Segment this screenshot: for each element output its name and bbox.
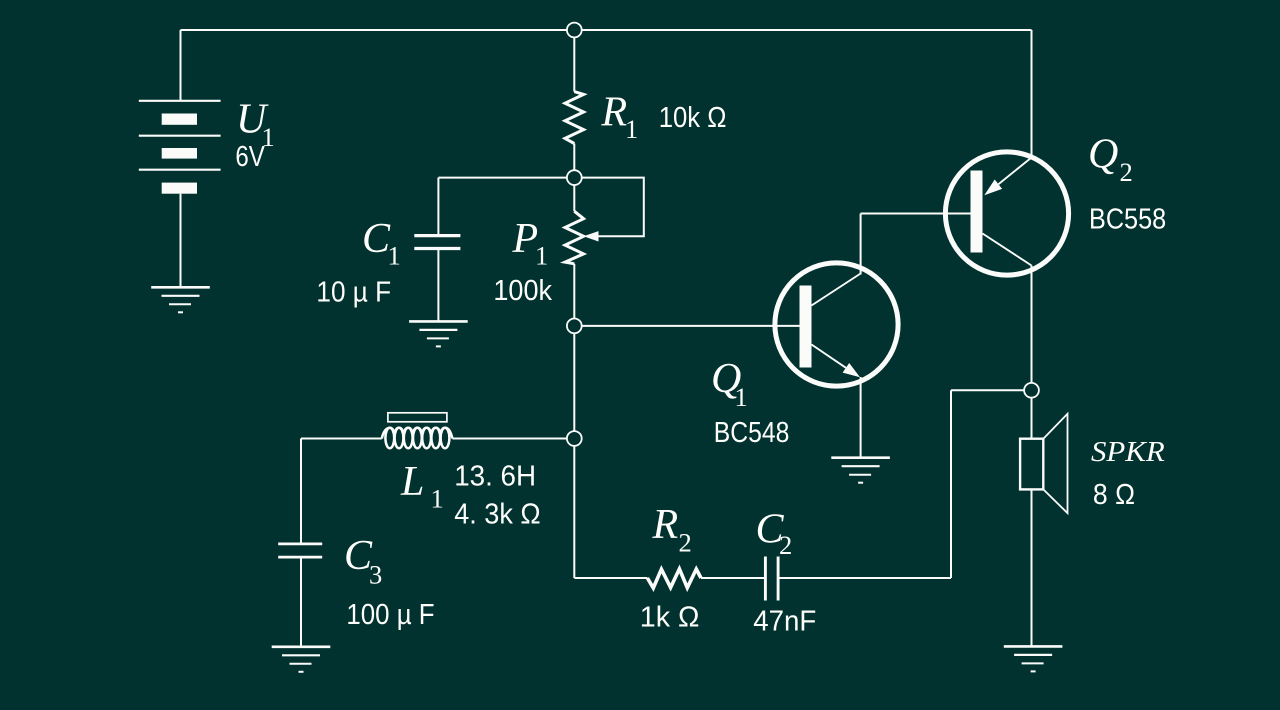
ground C1: [409, 321, 468, 346]
resistor R2: [647, 569, 701, 588]
svg-text:R: R: [601, 90, 628, 136]
wire bottom rail to R2: [574, 577, 647, 579]
inductor L1 coil: [382, 428, 453, 449]
svg-text:100k: 100k: [493, 274, 552, 306]
wire Q1 base horizontal: [574, 325, 799, 327]
svg-text:100 µ F: 100 µ F: [346, 598, 434, 630]
svg-text:2: 2: [1120, 157, 1133, 187]
wire L1 right: [452, 438, 566, 440]
wire speaker to ground: [1031, 489, 1033, 646]
wire Q2 base horizontal: [861, 213, 971, 215]
svg-text:1: 1: [535, 241, 548, 271]
svg-text:1: 1: [625, 114, 638, 144]
wire R2 to C2: [701, 577, 765, 579]
svg-text:L: L: [400, 459, 424, 505]
node L1 junction: [567, 431, 582, 446]
ground Q1 emitter: [831, 458, 890, 483]
capacitor C1: [414, 236, 460, 249]
svg-text:4. 3k Ω: 4. 3k Ω: [454, 498, 540, 530]
svg-text:BC548: BC548: [714, 416, 790, 448]
svg-text:13. 6H: 13. 6H: [454, 460, 536, 491]
svg-text:6V: 6V: [235, 140, 265, 172]
resistor R1: [565, 92, 584, 144]
capacitor C3: [278, 544, 322, 557]
wire Q2 emitter vertical: [1031, 30, 1033, 158]
wire node5 to speaker: [1031, 390, 1033, 438]
wire Q2 collector vertical: [1031, 266, 1033, 391]
svg-text:Q: Q: [1088, 132, 1118, 178]
wire C1 top vertical: [437, 178, 439, 236]
wire Q1 collector vertical: [860, 214, 862, 275]
svg-text:3: 3: [369, 560, 382, 590]
capacitor C2: [765, 557, 778, 601]
wire node3 to node4 vertical: [573, 326, 575, 439]
wire C3 bottom vertical: [300, 557, 302, 647]
transistor Q2 BC558: [945, 152, 1068, 275]
wire P1 wiper loop: [580, 178, 644, 237]
wire node2 to C1 horizontal: [438, 177, 574, 179]
ground battery: [151, 287, 210, 312]
svg-text:8 Ω: 8 Ω: [1093, 478, 1135, 510]
battery U1: [139, 101, 221, 194]
wire Q1 emitter vertical: [860, 377, 862, 457]
svg-text:R: R: [652, 502, 679, 548]
svg-text:10k Ω: 10k Ω: [659, 101, 727, 134]
wire C1 bottom vertical: [437, 249, 439, 322]
svg-text:1: 1: [388, 241, 401, 271]
wire L1 left: [301, 438, 382, 440]
wire node4 to bottom rail vertical: [573, 439, 575, 579]
wire P1 bottom: [573, 264, 575, 326]
svg-text:2: 2: [779, 530, 792, 560]
wire C2 to right riser: [778, 577, 951, 579]
node top rail junction: [567, 23, 582, 38]
potentiometer P1: [565, 211, 584, 264]
wire battery bottom: [180, 194, 182, 287]
P1 wiper arrow: [584, 231, 599, 241]
wire R1 bottom: [573, 144, 575, 178]
wire P1 top: [573, 178, 575, 212]
svg-text:2: 2: [679, 528, 692, 558]
svg-text:SPKR: SPKR: [1091, 437, 1165, 467]
svg-text:1: 1: [431, 484, 444, 514]
svg-text:10 µ F: 10 µ F: [316, 275, 391, 307]
svg-text:1k Ω: 1k Ω: [640, 602, 700, 634]
svg-text:1: 1: [735, 382, 748, 412]
svg-text:47nF: 47nF: [753, 605, 816, 636]
wire right riser vertical: [950, 390, 952, 578]
inductor L1 core bar: [388, 413, 447, 422]
speaker SPKR: [1020, 414, 1067, 513]
node R1/P1/C1 junction: [567, 170, 582, 185]
wire top rail: [181, 29, 1032, 31]
ground C3: [272, 647, 331, 672]
node P1/Q1 base junction: [567, 319, 582, 334]
wire battery top: [180, 30, 182, 101]
wire C3 top vertical: [300, 439, 302, 544]
svg-text:BC558: BC558: [1089, 203, 1166, 235]
ground speaker: [1004, 646, 1063, 671]
wire riser to node5: [951, 389, 1032, 391]
transistor Q1 BC548: [775, 263, 898, 386]
node speaker junction: [1024, 383, 1039, 398]
wire R1 top: [573, 30, 575, 92]
